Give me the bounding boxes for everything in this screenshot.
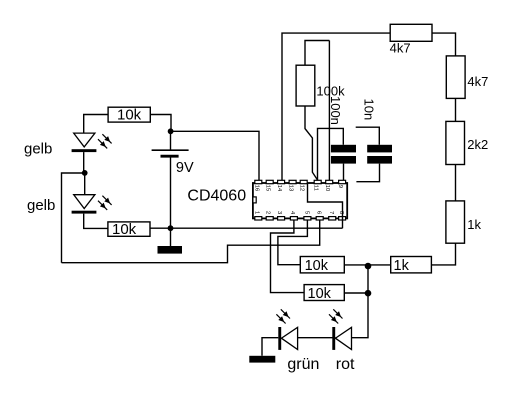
svg-text:11: 11	[313, 185, 319, 191]
wire LED1 to junction	[83, 152, 85, 173]
resistor 4k7 horizontal box	[390, 24, 432, 41]
svg-text:7: 7	[328, 211, 334, 214]
pin 14	[278, 180, 285, 183]
svg-text:gelb: gelb	[27, 197, 55, 214]
svg-text:rot: rot	[336, 356, 355, 373]
wire gruen to gnd	[262, 338, 278, 356]
wire pin6 to left rail	[62, 220, 320, 263]
gnd rail wire	[150, 227, 343, 229]
LED gruen cathode bar	[278, 327, 281, 350]
pin 5	[304, 217, 311, 220]
junction dot gnd	[168, 225, 174, 231]
IC notch	[253, 197, 256, 203]
svg-text:1k: 1k	[394, 258, 410, 274]
svg-text:9V: 9V	[176, 160, 194, 176]
wire C1 bottom to pin 9	[343, 164, 345, 181]
pin numbers bottom	[253, 211, 344, 215]
junction dot battery plus	[168, 128, 174, 134]
svg-text:10n: 10n	[362, 99, 377, 121]
junction dot node2	[365, 290, 372, 297]
wire gnd stub	[170, 228, 172, 246]
wire R1 left lead to LED1	[84, 115, 108, 134]
wire rot to gruen	[298, 337, 336, 339]
svg-text:1: 1	[253, 211, 259, 214]
wire pin14 to R 4k7 horizontal	[282, 33, 390, 180]
LED gruen arrows	[276, 309, 290, 323]
ground symbol 2	[249, 356, 275, 363]
LED1 gelb triangle	[74, 133, 95, 147]
LED2 arrows	[98, 196, 112, 210]
wire pin4 to R 10k right2	[271, 220, 305, 293]
svg-text:16: 16	[253, 185, 259, 191]
resistor 10k right2	[304, 285, 344, 301]
wire R to node1 to 1k	[344, 264, 390, 266]
pin 4	[290, 217, 297, 220]
wire R2 to node2	[344, 292, 368, 294]
resistor 10k top left	[108, 107, 150, 122]
svg-text:1k: 1k	[467, 217, 481, 232]
resistor 10k bottom left	[108, 222, 150, 236]
pin numbers top	[253, 185, 343, 192]
svg-text:4k7: 4k7	[390, 41, 411, 56]
wire 4k7h to right rail	[432, 33, 456, 56]
pin 7	[329, 217, 336, 220]
svg-text:10k: 10k	[305, 258, 329, 274]
resistor 100k vertical	[296, 65, 315, 106]
svg-text:10k: 10k	[117, 107, 142, 124]
svg-text:10k: 10k	[308, 286, 332, 302]
pin 8	[339, 217, 346, 220]
LED rot triangle	[335, 327, 351, 349]
junction dot LEDs	[82, 170, 88, 176]
LED gruen triangle	[281, 327, 297, 349]
wire pin5 to R 10k right1	[278, 220, 308, 265]
pin 6	[316, 217, 323, 220]
pin 2	[266, 217, 273, 220]
LED1 arrows	[98, 134, 112, 148]
svg-text:grün: grün	[287, 356, 319, 373]
pin 11	[314, 180, 321, 183]
svg-text:12: 12	[299, 185, 305, 191]
svg-text:2k2: 2k2	[467, 137, 488, 152]
capacitor C 10n plate bottom	[367, 156, 392, 164]
pin 13	[289, 180, 296, 183]
svg-text:100n: 100n	[328, 96, 343, 125]
svg-text:13: 13	[288, 185, 294, 191]
svg-text:2: 2	[265, 211, 271, 214]
svg-text:3: 3	[276, 211, 282, 214]
pin 9	[339, 180, 346, 183]
svg-text:4k7: 4k7	[467, 74, 488, 89]
svg-text:9: 9	[337, 185, 343, 188]
LED2 cathode bar	[72, 211, 97, 214]
svg-text:gelb: gelb	[24, 141, 52, 158]
LED2 gelb triangle	[74, 195, 95, 209]
pin 10	[326, 180, 333, 183]
pin 1	[255, 217, 262, 220]
svg-text:10: 10	[324, 185, 330, 191]
wire battery top	[170, 131, 172, 149]
battery 9V plate long	[152, 149, 189, 151]
wire node osc vertical to pin 10	[328, 41, 330, 181]
wire C2 bottom stub	[356, 164, 379, 182]
capacitor C 100n plate top	[331, 145, 356, 153]
wire junction to LED2	[84, 173, 86, 195]
wire battery plus rail to pin 16	[171, 131, 259, 180]
pin 16	[255, 180, 262, 183]
wire 1kv down to 1k horizontal	[431, 243, 455, 265]
LED1 cathode bar	[72, 149, 97, 152]
ground symbol 1	[158, 246, 183, 254]
resistor 10k right1	[300, 257, 344, 273]
wire LED2 to R2	[84, 214, 108, 229]
wire 100k top	[305, 41, 329, 66]
wire 4k7v to 2k2	[455, 98, 457, 121]
svg-text:5: 5	[303, 211, 309, 214]
resistor 4k7 vertical	[446, 56, 465, 99]
battery 9V plate short	[161, 155, 179, 158]
wire battery minus down to gnd rail	[170, 157, 172, 228]
pin 12	[300, 180, 307, 183]
junction dot node1	[365, 263, 372, 270]
IC CD4060 body	[253, 183, 347, 218]
pin 15	[266, 180, 273, 183]
wire internal pin12 to gnd rail	[308, 184, 343, 229]
LED rot cathode bar	[332, 327, 335, 350]
resistor 2k2	[446, 121, 465, 164]
svg-text:CD4060: CD4060	[187, 188, 246, 205]
wire 2k2 to 1k	[455, 165, 457, 201]
resistor 1k vertical	[446, 201, 465, 243]
wire pins 11-10 to C1 top	[318, 128, 344, 180]
svg-text:10k: 10k	[112, 221, 137, 238]
wire junction to left rail	[62, 173, 85, 263]
svg-text:14: 14	[276, 185, 282, 192]
pin 3	[278, 217, 285, 220]
capacitor C 10n plate top	[367, 145, 392, 153]
wire 100k bottom lead to pin 11	[305, 106, 318, 180]
wire R1 right lead to battery node	[150, 115, 171, 132]
capacitor C 100n plate bottom	[331, 156, 356, 164]
LED rot arrows	[329, 309, 343, 323]
resistor 1k horizontal	[391, 257, 432, 273]
svg-text:15: 15	[265, 185, 271, 191]
wire node1 down to LED row	[352, 266, 369, 338]
wire C2 10n top	[356, 127, 380, 145]
svg-text:6: 6	[316, 211, 322, 214]
